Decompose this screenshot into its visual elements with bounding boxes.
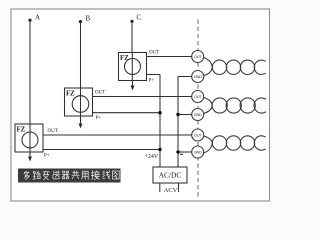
svg-text:OUT: OUT [48,129,58,134]
transmitter FZ (channel A) [15,124,43,152]
GND bus vertical [177,77,179,168]
共 [72,171,79,179]
dashed bus line (panel boundary) [197,20,199,199]
junction P+A / +24V bus [158,148,161,151]
器 [62,171,69,179]
+24V bus vertical [159,75,161,168]
svg-text:OUT: OUT [194,133,202,138]
svg-text:OUT: OUT [194,94,202,99]
多 [24,171,29,179]
junction GND bus t6 [176,150,179,153]
junction P+B / +24V bus [158,111,161,114]
svg-text:FZ: FZ [17,127,26,134]
svg-text:P+: P+ [96,116,102,121]
svg-text:OUT: OUT [194,54,202,59]
twisted pair cable row 2 [204,98,266,114]
terminal GND t4 [192,109,204,121]
svg-text:OUT: OUT [149,51,159,56]
wire GND stub t4 [178,114,192,116]
node A [28,14,40,22]
svg-text:AC/DC: AC/DC [159,171,182,180]
terminal OUT t5 [192,129,204,141]
transmitter FZ (channel B) [65,88,93,116]
用 [82,171,89,179]
label minus [180,153,183,155]
node C [130,14,141,23]
wire GND stub t6 [178,151,192,153]
wire P+ C to +24V bus [147,74,161,76]
wire GND stub t2 [178,76,192,78]
线 [103,171,110,179]
wire P+ B to +24V bus [93,112,161,114]
svg-text:B: B [86,15,91,23]
twisted pair cable row 3 [204,136,266,153]
路 [33,171,40,179]
wire P+ A to +24V bus [43,149,160,151]
wire OUT A [43,134,192,136]
图 [113,171,120,179]
wire OUT C [147,56,192,58]
svg-text:C: C [137,14,142,22]
title bar 多路变送器共用接线图 [18,169,121,183]
wire OUT B [93,96,192,98]
arrow below FZ C [131,81,135,91]
svg-text:P+: P+ [44,154,50,159]
送 [53,171,60,179]
wire A vertical [29,20,31,124]
arrow below FZ B [79,116,83,129]
svg-text:P+: P+ [149,79,155,84]
svg-text:GND: GND [194,112,202,117]
svg-text:ACV: ACV [164,187,178,194]
svg-text:+24V: +24V [145,154,159,160]
border frame [11,9,270,201]
terminal GND t6 [192,146,204,158]
svg-text:OUT: OUT [95,91,105,96]
svg-text:A: A [35,14,40,22]
junction GND bus t4 [176,113,179,116]
svg-text:GND: GND [194,150,202,155]
terminal OUT t1 [192,51,204,63]
svg-text:FZ: FZ [120,55,129,62]
svg-text:GND: GND [194,74,202,79]
wire C vertical [131,21,133,52]
terminal GND t2 [192,71,204,83]
svg-text:FZ: FZ [66,91,75,98]
transmitter FZ (channel C) [119,53,147,81]
变 [43,171,49,180]
AC input pin left [159,183,161,192]
接 [91,171,99,180]
terminal OUT t3 [192,91,204,103]
wire B vertical [80,22,82,88]
twisted pair cable row 1 [204,58,266,76]
node B [79,15,91,24]
arrow below FZ A [28,152,32,162]
power supply U1 AC/DC [153,167,187,183]
AC input pin right [178,183,180,192]
